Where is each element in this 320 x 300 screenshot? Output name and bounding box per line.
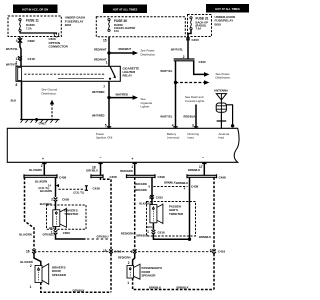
connector C606 pin 1	[51, 230, 70, 235]
svg-text:RED/BLK: RED/BLK	[184, 115, 196, 119]
svg-text:TWEETER: TWEETER	[169, 212, 184, 216]
svg-text:G401: G401	[39, 122, 47, 126]
svg-text:6: 6	[210, 249, 212, 253]
svg-text:GRY/BLU: GRY/BLU	[97, 234, 109, 238]
value label FUSE 31 BACK-UP (RADIO) 7.5A	[196, 17, 209, 31]
svg-text:RED/GRN: RED/GRN	[121, 232, 133, 236]
svg-text:GRY/BLU: GRY/BLU	[86, 169, 98, 173]
svg-text:BRN/BLK: BRN/BLK	[177, 286, 189, 290]
svg-text:2: 2	[16, 60, 18, 64]
svg-text:Console Lights.: Console Lights.	[185, 99, 205, 103]
svg-text:BLU/GRN: BLU/GRN	[29, 168, 41, 172]
svg-text:BLK: BLK	[11, 99, 17, 103]
connector C458 (wide bar)	[24, 174, 67, 179]
svg-text:1: 1	[30, 285, 32, 289]
fuse F36	[108, 19, 110, 32]
driver tweeter speaker symbol	[53, 202, 67, 230]
svg-text:BLU/GRN: BLU/GRN	[35, 179, 47, 183]
svg-text:FUSE 31: FUSE 31	[196, 17, 209, 21]
antenna	[214, 88, 234, 128]
svg-text:BRN/BLK: BRN/BLK	[164, 180, 176, 184]
svg-text:RED/GRN: RED/GRN	[118, 255, 130, 259]
value label FUSE 36 RADIO CIGAR LIGHTER 15A	[114, 19, 135, 33]
note See Cigarette Lighter	[141, 97, 153, 109]
label DRIVER'S DOOR SPEAKER	[52, 265, 67, 277]
svg-text:C350: C350	[192, 38, 200, 42]
svg-text:+: +	[132, 157, 134, 161]
driver tweeter return joins GRY/BLU wire	[56, 234, 86, 239]
svg-text:CONNECTOR: CONNECTOR	[49, 45, 69, 49]
radio unit box	[7, 128, 239, 162]
connector C418, pin 17	[15, 56, 35, 61]
header HOT IN ACC OR ON	[13, 5, 58, 14]
GRY/BLU wire down to return	[110, 254, 112, 293]
variant dashed tap to C438	[153, 184, 198, 190]
svg-text:BRN/BLK: BRN/BLK	[188, 168, 200, 172]
passenger tweeter speaker symbol	[150, 204, 163, 230]
svg-text:C402: C402	[199, 60, 207, 64]
svg-text:BRN/BLK: BRN/BLK	[149, 286, 161, 290]
wire branch from C402 to power distribution	[194, 61, 205, 75]
svg-text:2: 2	[41, 164, 43, 168]
junction	[107, 96, 110, 99]
wire from fuse31 down	[188, 30, 191, 59]
svg-text:C458: C458	[59, 175, 67, 179]
svg-text:HOT IN ACC, OR ON: HOT IN ACC, OR ON	[22, 8, 48, 12]
svg-text:lead: lead	[219, 136, 225, 140]
svg-text:Lighter.: Lighter.	[141, 105, 151, 109]
svg-text:RED/GRN: RED/GRN	[135, 182, 147, 186]
svg-text:BRN/BLK: BRN/BLK	[199, 235, 211, 239]
svg-text:RED/WHT: RED/WHT	[119, 47, 132, 51]
connector C498 bar 1	[127, 174, 166, 179]
fuse F11	[19, 19, 21, 32]
cigarette lighter relay box	[16, 66, 120, 81]
svg-text:BRN/BLK: BRN/BLK	[176, 181, 188, 185]
svg-text:1: 1	[127, 281, 129, 285]
passenger RED/GRN wire down (dashed door section)	[134, 177, 136, 249]
svg-text:FUSE 36: FUSE 36	[114, 19, 127, 23]
svg-text:7.5A: 7.5A	[26, 27, 32, 31]
svg-text:WHT/RED: WHT/RED	[116, 92, 129, 96]
svg-text:SPEAKER: SPEAKER	[142, 274, 157, 278]
wire WHT/YEL down to radio battery pin	[175, 61, 177, 129]
radio terminal labels	[96, 132, 230, 140]
connector C682 (X symbol), pin 4	[16, 38, 35, 43]
C438 wire leg down to join	[189, 177, 191, 239]
svg-text:C615: C615	[156, 196, 164, 200]
connector C605 pin 2	[51, 197, 69, 201]
connector C615 pin 2	[149, 195, 163, 200]
note See Dash and Console Lights	[185, 95, 205, 103]
svg-text:SPEAKER: SPEAKER	[52, 273, 67, 277]
svg-text:WHT/RED: WHT/RED	[92, 90, 105, 94]
svg-text:1: 1	[106, 61, 108, 65]
passenger tweeter box (dashed)	[147, 202, 196, 237]
svg-text:(2.3L TL): (2.3L TL)	[74, 190, 85, 194]
svg-text:WHT/YEL: WHT/YEL	[160, 115, 172, 119]
note See Power Distribution	[216, 72, 231, 80]
svg-text:−: −	[100, 156, 102, 160]
svg-text:C416: C416	[218, 249, 226, 253]
note See Power Distribution	[141, 49, 156, 57]
svg-text:2: 2	[30, 264, 32, 268]
driver branch to door speaker (dashed)	[25, 177, 35, 249]
svg-text:3: 3	[192, 124, 194, 128]
svg-text:C616: C616	[158, 230, 166, 234]
C416 pin 6	[210, 249, 226, 254]
wire RED/GRN into passenger speaker	[133, 254, 135, 266]
svg-text:WHT/YEL: WHT/YEL	[171, 48, 183, 52]
svg-text:RADIO: RADIO	[26, 23, 35, 27]
svg-text:2: 2	[51, 197, 53, 201]
label DRIVER'S TWEETER	[64, 208, 79, 216]
svg-text:(memory): (memory)	[167, 136, 179, 140]
connector row C413 (dashed line)	[34, 251, 214, 253]
svg-text:8: 8	[16, 83, 18, 87]
svg-text:ANTENNA: ANTENNA	[214, 88, 229, 92]
svg-text:+: +	[42, 157, 44, 161]
wire BLU/GRN into driver speaker	[34, 254, 41, 266]
junction on WHT/YEL	[174, 81, 177, 84]
header HOT AT ALL TIMES (right)	[206, 4, 249, 13]
svg-text:Distribution.: Distribution.	[42, 92, 57, 96]
svg-text:HOT AT ALL TIMES: HOT AT ALL TIMES	[215, 7, 240, 11]
svg-text:(Ignition ON): (Ignition ON)	[96, 136, 112, 140]
wire fuse11 bus to option connector	[20, 32, 57, 35]
svg-text:Distribution.: Distribution.	[216, 76, 231, 80]
svg-text:HOT AT ALL TIMES: HOT AT ALL TIMES	[113, 8, 138, 12]
svg-text:BOX: BOX	[215, 22, 222, 26]
svg-text:BRN/BLK: BRN/BLK	[137, 234, 149, 238]
svg-text:C418: C418	[28, 57, 36, 61]
svg-text:GRY/BLU: GRY/BLU	[43, 233, 55, 237]
svg-text:BOX: BOX	[65, 23, 72, 27]
svg-text:input: input	[188, 136, 194, 140]
svg-text:RED/WHT: RED/WHT	[94, 47, 107, 51]
svg-text:C606: C606	[63, 231, 71, 235]
svg-text:1: 1	[147, 230, 149, 234]
svg-text:7: 7	[103, 85, 105, 89]
ground G401	[20, 118, 59, 126]
svg-text:C458: C458	[110, 175, 118, 179]
label UNDER-DASH FUSE/RELAY BOX	[65, 16, 85, 28]
svg-text:5: 5	[105, 124, 107, 128]
svg-text:7: 7	[131, 250, 133, 254]
C413 pin 16	[26, 249, 36, 253]
connector C402 (bar)	[174, 59, 206, 64]
svg-text:RED/GRN: RED/GRN	[120, 169, 132, 173]
driver GRY/BLU wire down (dashed door section)	[101, 177, 112, 249]
radio internal +/- marks	[42, 156, 204, 161]
C413 pin 15	[103, 249, 122, 254]
svg-text:4: 4	[16, 39, 18, 43]
svg-text:15: 15	[103, 249, 107, 253]
svg-text:7.5A: 7.5A	[196, 27, 202, 31]
svg-text:C438: C438	[191, 184, 199, 188]
svg-text:WHT/RED: WHT/RED	[92, 114, 105, 118]
relay coil	[18, 67, 22, 80]
C416 pin 7	[131, 249, 137, 253]
passenger BRN/BLK right leg down	[213, 177, 215, 249]
connector C616 pin 1	[147, 230, 165, 234]
dashed branch to power distribution	[176, 82, 205, 84]
value label FUSE 11 RADIO 7.5A	[26, 19, 39, 31]
svg-text:1: 1	[131, 165, 133, 169]
header HOT AT ALL TIMES (middle)	[103, 5, 147, 14]
driver door speaker symbol	[35, 263, 49, 285]
svg-text:C413: C413	[114, 250, 122, 254]
svg-text:C605: C605	[62, 198, 70, 202]
passenger tweeter feed wire RED/GRN from C498	[151, 177, 153, 204]
variant dashed tap to C438	[56, 184, 100, 194]
note See Ground Distribution with up arrow	[42, 88, 58, 120]
relay mechanical linkage (dashed)	[24, 73, 105, 75]
svg-text:C498: C498	[158, 175, 166, 179]
svg-text:BLK: BLK	[147, 225, 152, 229]
fuse F31	[190, 17, 192, 30]
svg-text:15: 15	[103, 38, 107, 42]
wire fuse36 down to relay pin 1	[108, 37, 110, 67]
svg-text:C438: C438	[93, 186, 101, 190]
wire fuse11 down to relay	[20, 37, 21, 67]
junction	[107, 51, 110, 54]
connector C458 second bar	[91, 174, 117, 179]
driver tweeter feed wire	[55, 177, 57, 197]
label PASSENGER'S DOOR SPEAKER	[142, 266, 163, 278]
driver tweeter box (dashed)	[47, 205, 87, 229]
svg-text:BLU/GRN: BLU/GRN	[40, 189, 52, 193]
option connector C606 stub (cup)	[54, 33, 59, 37]
svg-text:RED/GRN: RED/GRN	[135, 188, 147, 192]
svg-text:2: 2	[128, 261, 130, 265]
passenger tweeter return joins BRN/BLK leg	[153, 234, 189, 239]
svg-text:BLU/GRN: BLU/GRN	[19, 233, 31, 237]
under-dash fuse box 2 (dashed)	[96, 17, 185, 37]
under-hood fuse/relay box (dashed)	[188, 15, 212, 37]
label UNDER-HOOD FUSE/RELAY BOX	[215, 15, 236, 27]
dimming wire RED/BLK (dashed from above)	[195, 105, 197, 129]
svg-text:C498: C498	[219, 175, 227, 179]
svg-text:15A: 15A	[114, 29, 119, 33]
svg-text:RELAY: RELAY	[123, 74, 133, 78]
svg-text:WHT/YEL: WHT/YEL	[6, 47, 18, 51]
wire branch to cigarette lighter	[109, 97, 134, 99]
svg-text:GRY/BLK: GRY/BLK	[73, 288, 85, 292]
label CIGARETTE LIGHTER RELAY	[123, 66, 140, 77]
passenger door speaker symbol	[127, 264, 140, 280]
connector C350	[186, 38, 199, 42]
svg-text:Distribution.: Distribution.	[141, 52, 156, 56]
svg-text:C682: C682	[28, 39, 36, 43]
wire down to return junction	[213, 254, 215, 290]
svg-text:BLK: BLK	[49, 226, 54, 230]
svg-text:FUSE 11: FUSE 11	[26, 19, 39, 23]
svg-text:WHT/YEL: WHT/YEL	[160, 69, 172, 73]
wire branch to power distribution	[109, 52, 134, 54]
svg-text:−: −	[202, 156, 204, 160]
label PASSENGER'S TWEETER	[169, 204, 184, 216]
svg-text:16: 16	[26, 250, 30, 254]
under-dash fuse/relay box (dashed)	[8, 16, 61, 37]
label C606 OPTION CONNECTOR	[49, 37, 69, 48]
connector C498 bar 2	[187, 174, 226, 179]
relay switch	[109, 66, 116, 79]
